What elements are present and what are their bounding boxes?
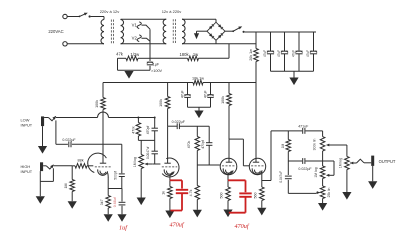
capacitor 470uf red V1b <box>170 179 182 181</box>
ground output <box>368 181 377 189</box>
capacitor 470pF tone <box>302 128 304 134</box>
capacitor 1uF >100V <box>149 58 151 61</box>
switch S1 mains <box>67 16 79 18</box>
svg-text:V1: V1 <box>132 22 138 27</box>
ground decoupling <box>194 111 203 119</box>
svg-text:1M log: 1M log <box>314 167 318 177</box>
ground 4.7k <box>193 210 202 218</box>
wire V2b plate <box>255 83 257 159</box>
ground bias row <box>124 71 133 79</box>
wire coupling to RC2 <box>179 125 209 127</box>
svg-text:>100V: >100V <box>151 69 163 73</box>
node RC1 junction a <box>137 117 139 119</box>
potentiometer 1M log tone <box>140 140 142 154</box>
bridge rectifier D1-D4 <box>207 22 225 40</box>
wire bias row <box>118 57 127 59</box>
svg-text:470uf: 470uf <box>169 222 184 229</box>
wire HIGH input run <box>54 165 72 167</box>
wire cap bank ground stem <box>293 71 295 77</box>
capacitor cathode bypass V1a <box>121 189 123 202</box>
svg-text:47uF: 47uF <box>203 90 207 98</box>
wire V1b plate <box>167 126 169 158</box>
ground cathode V2b <box>257 208 266 216</box>
capacitor 470pf first <box>154 118 156 129</box>
svg-text:500pf: 500pf <box>114 171 118 180</box>
svg-text:47uF: 47uF <box>292 50 296 57</box>
capacitor decoupling 47uF b <box>210 83 212 95</box>
heater V2 squiggle <box>137 35 141 42</box>
capacitor 470uf red V2a <box>228 179 246 181</box>
svg-text:1/2w: 1/2w <box>130 52 140 57</box>
svg-text:47k: 47k <box>116 52 124 57</box>
wire bottom terminal to T1 <box>67 43 104 45</box>
wire V2 tap <box>142 38 151 41</box>
resistor 10k 1w <box>193 80 203 85</box>
svg-text:12v à 220v: 12v à 220v <box>162 9 182 14</box>
wire B+ rail <box>103 82 188 84</box>
wire splitter branch <box>229 138 243 140</box>
resistor 47k 1/2w <box>126 56 138 61</box>
wire LOW input run <box>56 117 98 119</box>
transformer T2 secondary winding <box>182 19 185 44</box>
svg-text:470pf: 470pf <box>201 140 205 149</box>
wiper volume to output <box>350 162 353 165</box>
ground LOW input <box>38 146 47 154</box>
svg-text:0.047uF: 0.047uF <box>279 171 283 183</box>
svg-text:220VAC: 220VAC <box>48 29 63 34</box>
capacitor 0.047uF tone <box>287 161 289 175</box>
potentiometer 25k lin <box>320 186 325 199</box>
svg-text:470pf: 470pf <box>146 126 150 135</box>
wire V2b cathode <box>261 175 263 181</box>
potentiometer 300k lin <box>322 131 324 137</box>
svg-text:500: 500 <box>220 193 224 199</box>
potentiometer 1M log mid <box>320 166 325 179</box>
ground 1M log tone <box>137 198 146 206</box>
wire HIGH jack contact <box>43 165 46 167</box>
svg-text:0.68uf: 0.68uf <box>113 197 117 207</box>
wire heater centre drop <box>149 29 151 58</box>
ground cap bank <box>289 78 298 86</box>
resistor 1k cathode V1a <box>106 196 111 209</box>
ground volume <box>342 192 351 200</box>
wire bridge return <box>255 43 257 45</box>
svg-text:1k: 1k <box>161 191 165 195</box>
capacitor filter 47uF #2 <box>284 32 286 51</box>
svg-text:0.022µF: 0.022µF <box>172 120 186 124</box>
wiper 300k lin <box>329 144 335 146</box>
svg-text:0.022µF: 0.022µF <box>62 138 76 142</box>
wire LOW jack sleeve <box>42 126 44 146</box>
svg-text:100k: 100k <box>221 96 225 104</box>
connector OUTPUT jack <box>371 156 374 166</box>
wire V1a cathode <box>107 177 109 188</box>
resistor 470k second <box>196 126 198 136</box>
wiper 1M log mid <box>328 174 331 176</box>
svg-text:47uF: 47uF <box>180 90 184 98</box>
node RC1 junction b <box>154 117 156 119</box>
svg-text:47uF: 47uF <box>306 50 310 57</box>
ground 1M grid <box>68 201 77 209</box>
resistor 100k plate V1a <box>102 83 104 98</box>
wire T1 secondary bottom <box>121 43 167 45</box>
arrow bridge minus down <box>194 33 199 39</box>
connector HIGH jack <box>40 162 43 171</box>
wire tone bottom <box>288 192 316 194</box>
capacitor 0.022uF LOW <box>68 141 70 147</box>
wire 180k up to bridge return <box>228 44 230 59</box>
wire to grid V1b <box>153 163 161 165</box>
wire cap bank bottom rail <box>271 70 314 72</box>
wire RC1 bottom rail <box>138 139 154 141</box>
svg-text:471uF: 471uF <box>298 125 309 129</box>
svg-text:1M: 1M <box>64 184 68 189</box>
ground HIGH input <box>36 196 45 204</box>
wire cathode rail V1a <box>108 188 122 190</box>
svg-text:3k7: 3k7 <box>100 199 104 205</box>
svg-text:100k: 100k <box>159 99 163 107</box>
svg-text:470k: 470k <box>187 141 191 149</box>
capacitor 500pf <box>119 173 125 175</box>
wire HIGH jack sleeve <box>39 181 41 196</box>
ground cathode C V1a <box>117 214 126 222</box>
svg-text:47uF: 47uF <box>263 50 267 57</box>
capacitor filter 47uF #1 <box>270 32 272 51</box>
svg-text:INPUT: INPUT <box>21 169 33 174</box>
wire 88k to grid V1a <box>87 165 93 167</box>
wire T2 secondary top to bridge <box>182 18 216 20</box>
wire V1 tap <box>142 25 151 29</box>
wire 0.022uF to 500pf branch <box>72 143 122 145</box>
capacitor filter 47uF #4 <box>313 32 315 51</box>
resistor 20k 1w <box>255 32 257 49</box>
wire switch to T1 <box>91 16 104 18</box>
svg-text:10k 1w: 10k 1w <box>192 76 204 80</box>
resistor 1k cathode V1b <box>169 180 171 186</box>
wire V2a plate <box>228 139 230 158</box>
wire bridge minus stub <box>197 30 208 32</box>
capacitor 470pf second <box>208 126 210 143</box>
wire bias left leg <box>117 58 119 70</box>
node 220VAC top terminal <box>63 14 67 18</box>
wire grid rail V2a <box>197 164 220 166</box>
wire V1b cathode <box>169 177 171 181</box>
ground tone chain <box>318 203 327 211</box>
wire tone top2 <box>305 130 322 132</box>
wire tone top <box>271 130 302 132</box>
svg-text:88k: 88k <box>78 159 84 163</box>
capacitor decoupling 47uF a <box>187 83 189 95</box>
wiper 25k lin <box>315 192 318 195</box>
svg-text:4.7k: 4.7k <box>189 189 193 196</box>
resistor 470k first <box>137 118 139 123</box>
svg-text:180k: 180k <box>179 52 189 57</box>
capacitor filter 47uF #3 <box>298 32 300 51</box>
resistor 100k plate V1b <box>167 83 169 97</box>
svg-text:1M: 1M <box>281 143 285 148</box>
wire LOW input hop over plate <box>98 112 109 117</box>
resistor 560 cathode V2b <box>261 181 263 188</box>
wire decoupling bottom <box>188 106 211 108</box>
svg-text:0.022µF: 0.022µF <box>298 167 312 171</box>
wire 300k wiper run <box>335 144 347 146</box>
svg-text:100k: 100k <box>95 100 99 108</box>
wire tone chain <box>287 131 289 140</box>
wire HT rail <box>245 31 316 33</box>
svg-text:47uF: 47uF <box>277 50 281 57</box>
wire V2a cathode <box>227 175 229 181</box>
potentiometer 1M log volume <box>346 156 348 158</box>
tube triode V2b <box>249 158 265 174</box>
node 220VAC bottom terminal <box>63 42 67 46</box>
wire coupling junction <box>168 125 178 127</box>
ground cathode V1b <box>165 211 174 219</box>
svg-text:470uf: 470uf <box>234 223 249 230</box>
wire output sleeve <box>372 166 374 181</box>
wire output contact <box>364 162 371 164</box>
wire tone mid <box>288 160 302 162</box>
svg-text:300k lin: 300k lin <box>313 139 317 151</box>
resistor 1M tone chain <box>286 140 291 152</box>
resistor 100k plate V2a <box>228 83 230 94</box>
ground cathode R V1a <box>104 214 113 222</box>
resistor 4.7k <box>196 165 198 186</box>
transformer T1 secondary winding <box>121 20 124 44</box>
connector LOW jack <box>41 116 44 126</box>
wire bridge bottom corner <box>215 40 217 44</box>
ground cathode V2a <box>223 210 232 218</box>
svg-text:OUTPUT: OUTPUT <box>379 159 396 164</box>
tube triode V1a <box>88 153 107 172</box>
svg-text:0.0047uf: 0.0047uf <box>146 146 150 159</box>
capacitor 0.0047uf <box>154 140 156 151</box>
switch S2 HT <box>225 30 233 32</box>
svg-text:V2: V2 <box>132 36 138 41</box>
resistor 180k 1w <box>188 56 199 61</box>
wire decoupling ground stem <box>198 107 200 110</box>
svg-text:25k lin: 25k lin <box>327 187 331 197</box>
svg-text:INPUT: INPUT <box>21 123 33 128</box>
wire HIGH jack loop <box>52 168 54 181</box>
transformer T1 core <box>110 20 112 44</box>
svg-text:1M log: 1M log <box>338 158 342 168</box>
svg-text:20k 1w: 20k 1w <box>249 49 253 61</box>
svg-text:220v à 12v: 220v à 12v <box>100 9 120 14</box>
transformer T2 core <box>172 19 174 44</box>
resistor 88k <box>75 164 87 169</box>
wire cathode to tone stack <box>262 180 271 182</box>
svg-text:1uf: 1uf <box>119 225 128 232</box>
capacitor 0.022uF coupling <box>176 123 178 129</box>
wire LOW drop to cap <box>55 120 57 144</box>
tube triode V2a <box>220 158 237 175</box>
svg-text:560: 560 <box>254 193 258 199</box>
transformer T2 primary winding <box>163 19 166 44</box>
heater V1 squiggle <box>137 22 141 29</box>
wire tone mid2 <box>305 160 334 162</box>
capacitor 0.022uF tone <box>302 158 304 164</box>
wire T1 secondary top <box>120 18 122 20</box>
wire T2 secondary bottom to bridge <box>182 43 256 45</box>
svg-text:470k: 470k <box>131 126 135 134</box>
tube triode V1b <box>162 158 179 177</box>
wire LOW input run2 <box>109 117 155 119</box>
transformer T1 primary winding <box>101 20 104 44</box>
svg-text:1M log: 1M log <box>133 157 137 167</box>
svg-text:1µF: 1µF <box>153 63 160 67</box>
resistor 500 cathode V2a <box>227 180 229 187</box>
wire 500pf to rail <box>121 177 123 189</box>
resistor 1M grid <box>71 166 73 180</box>
wiper 1M log tone <box>147 163 153 165</box>
wire LOW jack contact <box>44 117 48 119</box>
